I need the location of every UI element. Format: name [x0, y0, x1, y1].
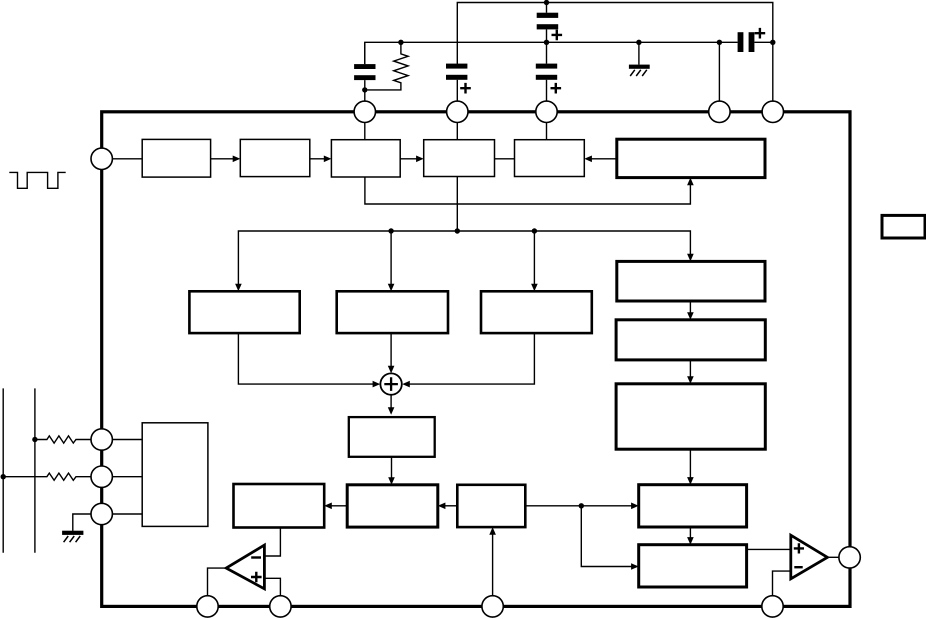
- pin 5 top: [354, 101, 375, 122]
- wire F4 to F3: [438, 503, 458, 510]
- capacitor C2: [354, 42, 375, 101]
- wire junction to G2 block: [581, 506, 638, 570]
- wire F2 to op-amp U1 inverting: [265, 528, 281, 557]
- block E2: [616, 320, 765, 360]
- wire T2 drop: [456, 123, 458, 140]
- pin 6 top: [447, 101, 468, 122]
- node C5 right junction: [770, 40, 775, 45]
- node C2-R1 bottom junction: [362, 87, 367, 92]
- wire pin B3 up to F4: [489, 527, 496, 596]
- node F4-G junction: [579, 503, 584, 508]
- wire B4 to B5: [495, 158, 515, 160]
- wire distribution rail: [238, 231, 690, 286]
- ground G1: [629, 42, 650, 76]
- wire B3 to B4: [400, 156, 424, 163]
- block D1: [189, 291, 299, 333]
- node mid-rail C1 junction: [544, 40, 549, 45]
- wire B2 to B3: [310, 156, 332, 163]
- wire drop to D3: [531, 231, 538, 291]
- wire pin L4 to head block: [112, 513, 142, 515]
- wire G2 to op-amp U2 non-inverting: [747, 548, 791, 550]
- wire B4 drop to distribution: [456, 177, 458, 232]
- capacitor C5: [738, 28, 766, 52]
- wire mid rail: [365, 42, 773, 64]
- wire D3 to summer: [402, 333, 534, 387]
- bus line A: [2, 388, 4, 552]
- wire pin L3 to head block: [112, 476, 142, 478]
- block B5: [515, 140, 585, 177]
- wire G1 to G2: [687, 527, 694, 545]
- wire B1 to B2: [211, 156, 241, 163]
- block E1: [617, 261, 765, 301]
- summing junction: [380, 373, 401, 394]
- capacitor C3: [446, 64, 471, 102]
- wire E1 to E2: [687, 301, 694, 320]
- resistor R1: [368, 42, 409, 90]
- pin 11 bottom: [270, 596, 291, 617]
- wire op-amp U2 output: [827, 556, 839, 558]
- bus line B: [34, 388, 36, 552]
- pin 3 head R: [91, 466, 112, 487]
- legend block: [882, 215, 925, 238]
- wire op-amp U1 non-inverting to pin: [265, 578, 281, 595]
- block D2: [337, 291, 448, 333]
- op-amp U1: [226, 545, 264, 589]
- wire pin-T4 lead: [718, 42, 720, 101]
- wire drop to D2: [388, 231, 395, 291]
- block B3: [331, 140, 400, 177]
- pin 14 output: [839, 547, 860, 568]
- wire F5 to F3: [388, 457, 395, 485]
- resistor R3: [3, 473, 91, 480]
- wire D1 to summer: [238, 333, 380, 387]
- head block: [142, 423, 208, 527]
- wire F3 to F2: [324, 503, 347, 510]
- pin 1 clock: [91, 148, 112, 169]
- arrow into E1: [687, 254, 694, 262]
- pin 10 bottom: [197, 596, 218, 617]
- wire T1 drop: [364, 123, 366, 140]
- wire B6 to B5: [584, 156, 617, 163]
- block D3: [481, 291, 592, 333]
- node bus-A junction: [1, 474, 6, 479]
- wire top rail: [457, 3, 773, 65]
- ground G2: [62, 514, 91, 542]
- block B1: [142, 139, 210, 177]
- pin 13 bottom: [762, 596, 783, 617]
- wire E3 to F1: [687, 449, 694, 485]
- wire op-amp U2 inverting to pin: [773, 571, 791, 596]
- wire pin-T5 lead: [772, 42, 774, 101]
- block G1: [639, 485, 747, 527]
- block B6: [617, 139, 765, 177]
- wire T3 drop: [546, 123, 548, 140]
- pin 9 top: [762, 101, 783, 122]
- capacitor C4: [536, 42, 561, 101]
- op-amp U2: [791, 535, 828, 579]
- node top-rail junction: [544, 0, 549, 5]
- wire D2 to summer: [388, 333, 395, 373]
- pin 12 bottom: [482, 596, 503, 617]
- block F3: [347, 485, 438, 527]
- node distribution B4: [455, 228, 460, 233]
- node distribution D2: [388, 228, 393, 233]
- pin 7 top: [536, 101, 557, 122]
- block B2: [240, 139, 309, 176]
- block B4: [424, 140, 495, 177]
- wire pin L2 to head block: [112, 439, 142, 441]
- block F2: [234, 484, 325, 528]
- IC outline: [102, 112, 850, 607]
- wire summer to F5: [388, 395, 395, 415]
- pin 8 top: [709, 101, 730, 122]
- block F4: [457, 485, 525, 527]
- block E3: [616, 384, 765, 449]
- wire B3 to B6 feedback: [365, 177, 694, 204]
- wire F4 to G1 block: [525, 503, 638, 510]
- node T4 rail junction: [717, 40, 722, 45]
- resistor R2: [35, 436, 92, 443]
- block G2: [639, 545, 747, 587]
- node bus-B junction: [32, 437, 37, 442]
- node distribution D3: [532, 228, 537, 233]
- arrow into D1: [235, 284, 242, 292]
- capacitor C1: [537, 3, 562, 43]
- block F5: [349, 417, 435, 457]
- node ground junction: [636, 40, 641, 45]
- wire clock to block1: [112, 158, 142, 160]
- wire E2 to E3: [687, 360, 694, 384]
- wire op-amp U1 output to pin: [208, 568, 228, 596]
- clock waveform: [9, 172, 65, 188]
- pin 2 head L: [91, 429, 112, 450]
- node R1 top junction: [398, 40, 403, 45]
- pin 4 head gnd: [91, 503, 112, 524]
